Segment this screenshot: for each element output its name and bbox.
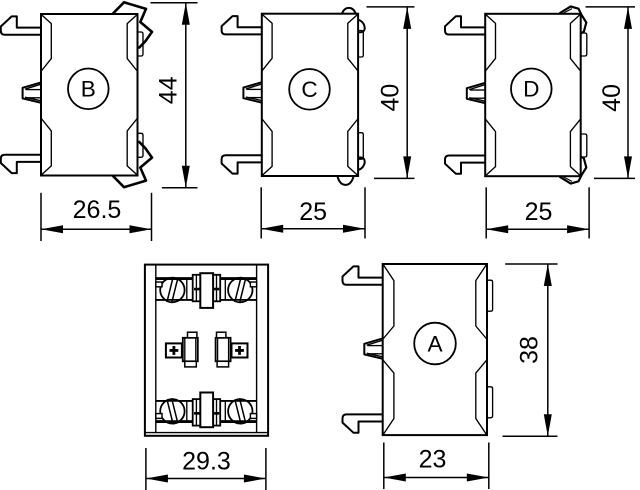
block B label circle bbox=[68, 69, 109, 110]
front view bottom band lower line bbox=[156, 420, 257, 423]
dim 40D line bbox=[627, 7, 629, 179]
front view bottom clamp bbox=[193, 393, 221, 428]
front view bottom-left step bbox=[156, 414, 162, 419]
dim 38 line bbox=[547, 264, 549, 436]
dim 40D extension line bottom bbox=[594, 177, 635, 179]
front view bottom-right screw bbox=[228, 399, 252, 424]
block D bottom-left mounting hook bbox=[445, 156, 485, 174]
dim 38 extension line bottom bbox=[503, 435, 558, 437]
block D inner ridge bottom-left bbox=[486, 119, 496, 175]
block A right latch upper bbox=[487, 280, 493, 311]
svg-text:26.5: 26.5 bbox=[73, 196, 122, 224]
block B inner ridge top-right bbox=[127, 15, 137, 71]
block D left snap tab bbox=[467, 83, 485, 103]
front view top-right screw bbox=[228, 278, 252, 303]
dim 25D line bbox=[486, 228, 589, 230]
block D top-left mounting hook bbox=[445, 16, 485, 34]
dim 29.3 arrow left bbox=[146, 475, 168, 483]
svg-text:B: B bbox=[81, 77, 96, 102]
svg-text:C: C bbox=[301, 77, 317, 102]
block A inner ridge top-right bbox=[476, 264, 487, 339]
svg-text:44: 44 bbox=[155, 76, 183, 104]
front view bottom band upper line bbox=[156, 400, 257, 402]
block D label circle bbox=[511, 69, 552, 110]
block C left snap tab bbox=[243, 82, 261, 102]
block B right latch upper bbox=[138, 32, 144, 56]
dim 40D arrow up bbox=[624, 7, 632, 29]
dim 25D arrow left bbox=[486, 225, 508, 233]
svg-text:D: D bbox=[523, 77, 539, 102]
contact block C body bbox=[262, 14, 358, 176]
dim 23 line bbox=[384, 477, 489, 479]
contact block B body bbox=[41, 14, 138, 176]
block B left snap tab bbox=[23, 82, 41, 102]
block C label circle bbox=[289, 69, 330, 110]
front view left contact bbox=[166, 332, 198, 367]
block C right hook upper bbox=[358, 20, 365, 33]
block D bottom-right claw bbox=[560, 157, 586, 184]
block A right latch lower bbox=[487, 387, 493, 418]
block B inner ridge bottom-left bbox=[41, 119, 51, 175]
block B right latch lower bbox=[138, 133, 144, 157]
block C top bump hook bbox=[342, 8, 356, 14]
front view inner wall left bbox=[155, 265, 157, 433]
contact block A body bbox=[383, 264, 487, 435]
front view bottom cavity wall right bbox=[224, 401, 226, 420]
front view top cavity wall right bbox=[224, 280, 226, 300]
block A label circle bbox=[414, 323, 456, 365]
svg-text:A: A bbox=[427, 331, 443, 356]
svg-text:29.3: 29.3 bbox=[182, 448, 231, 476]
block C top-left mounting hook bbox=[222, 16, 262, 34]
block D inner ridge top-right bbox=[570, 15, 580, 71]
dim 40C extension line top bbox=[367, 6, 415, 8]
svg-text:25: 25 bbox=[525, 198, 553, 226]
dim 44 line bbox=[185, 3, 187, 188]
dim 25C extension line right bbox=[364, 187, 366, 238]
block B top-right claw bbox=[113, 2, 152, 47]
front view top clamp bbox=[193, 273, 221, 308]
front view inner bottom line bbox=[145, 432, 268, 434]
dim 26.5 arrow right bbox=[130, 225, 152, 233]
block C bottom bump hook bbox=[337, 176, 353, 185]
block D inner ridge top-left bbox=[486, 15, 496, 71]
front view bottom cavity wall left bbox=[186, 401, 188, 420]
dim 25C line bbox=[261, 228, 365, 230]
front view bottom band lower line bbox=[156, 420, 257, 423]
block B top-left mounting hook bbox=[1, 16, 41, 34]
block C inner ridge top-left bbox=[262, 15, 272, 71]
contact block D body bbox=[485, 14, 581, 176]
block D inner ridge bottom-right bbox=[570, 119, 580, 175]
svg-text:23: 23 bbox=[419, 446, 447, 474]
dim 44 extension line bottom bbox=[162, 187, 198, 189]
block C right hook lower bbox=[358, 158, 365, 171]
block A inner ridge top-left bbox=[383, 264, 394, 339]
dim 25D extension line left bbox=[485, 187, 487, 238]
dim 29.3 extension line left bbox=[145, 448, 147, 490]
svg-text:40: 40 bbox=[598, 84, 626, 112]
dim 44 arrow down bbox=[182, 166, 190, 188]
block D top-right claw inner line bbox=[564, 9, 573, 13]
front view top-left step bbox=[156, 282, 162, 287]
dim 29.3 line bbox=[146, 478, 266, 480]
block C right latch lower bbox=[358, 133, 363, 160]
dim 25D extension line right bbox=[588, 187, 590, 238]
front view inner wall right bbox=[256, 265, 258, 433]
dim 25C arrow left bbox=[261, 225, 283, 233]
front view top band lower line bbox=[156, 299, 257, 301]
front view bottom-left screw bbox=[160, 399, 184, 424]
svg-text:38: 38 bbox=[516, 336, 544, 364]
front view bottom band upper line bbox=[156, 400, 257, 402]
block C inner ridge bottom-left bbox=[262, 119, 272, 175]
dim 25D arrow right bbox=[567, 225, 589, 233]
dim 40D extension line top bbox=[586, 6, 636, 8]
front view right contact bbox=[216, 332, 248, 367]
dim 23 extension line left bbox=[383, 443, 385, 490]
block B inner ridge top-left bbox=[41, 15, 51, 71]
block D right latch lower bbox=[581, 134, 587, 157]
dim 26.5 extension line left bbox=[40, 193, 42, 241]
block A inner ridge bottom-left bbox=[383, 360, 394, 435]
block D right latch upper bbox=[581, 33, 587, 56]
front view top band upper line bbox=[156, 277, 257, 280]
block B inner ridge bottom-right bbox=[127, 119, 137, 175]
block C right latch upper bbox=[358, 31, 363, 58]
front view top-right step bbox=[250, 282, 256, 287]
dim 23 arrow left bbox=[384, 474, 406, 482]
dim 40C extension line bottom bbox=[374, 177, 415, 179]
block C inner ridge top-right bbox=[348, 15, 358, 71]
front view top cavity wall left bbox=[186, 280, 188, 300]
dim 26.5 extension line right bbox=[151, 193, 153, 241]
front view outer housing bbox=[145, 265, 268, 436]
block A top-left mounting hook bbox=[343, 266, 383, 284]
dim 38 extension line top bbox=[505, 263, 557, 265]
dim 29.3 extension line right bbox=[265, 448, 267, 490]
svg-text:40: 40 bbox=[376, 84, 404, 112]
dim 23 arrow right bbox=[467, 474, 489, 482]
front view top band lower line bbox=[156, 299, 257, 301]
block A left snap tab bbox=[364, 338, 382, 358]
dim 38 arrow up bbox=[544, 264, 552, 286]
dim 44 extension line top bbox=[151, 2, 198, 4]
block A inner ridge bottom-right bbox=[476, 360, 487, 435]
block D top-right claw bbox=[560, 6, 586, 33]
dim 26.5 arrow left bbox=[41, 225, 63, 233]
svg-text:25: 25 bbox=[299, 198, 327, 226]
block A bottom-left mounting hook bbox=[343, 414, 383, 432]
front view bottom-right step bbox=[250, 414, 256, 419]
front view top band upper line bbox=[156, 277, 257, 280]
block C bottom-left mounting hook bbox=[222, 155, 262, 173]
front view top-left screw bbox=[160, 278, 184, 303]
dim 25C arrow right bbox=[343, 225, 365, 233]
block D bottom-right claw inner line bbox=[564, 177, 573, 181]
dim 38 arrow down bbox=[544, 414, 552, 436]
dim 29.3 arrow right bbox=[244, 475, 266, 483]
block B bottom-left mounting hook bbox=[1, 155, 41, 173]
dim 40C arrow up bbox=[403, 7, 411, 29]
dim 26.5 line bbox=[41, 228, 152, 230]
dim 40D arrow down bbox=[624, 156, 632, 178]
dim 44 arrow up bbox=[182, 3, 190, 25]
block B bottom-right claw bbox=[113, 142, 152, 187]
block C inner ridge bottom-right bbox=[348, 119, 358, 175]
dim 25C extension line left bbox=[260, 187, 262, 238]
dim 40C line bbox=[406, 7, 408, 179]
dim 23 extension line right bbox=[488, 443, 490, 490]
dim 40C arrow down bbox=[403, 156, 411, 178]
